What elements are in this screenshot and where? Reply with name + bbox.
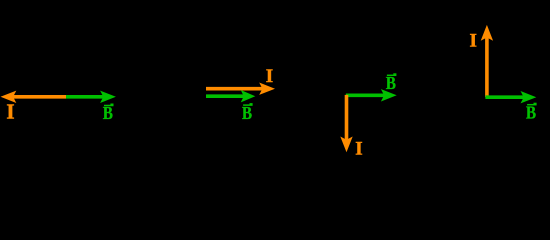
svg-text:I: I [355, 139, 362, 160]
svg-text:I: I [469, 30, 476, 51]
svg-text:I: I [266, 66, 273, 87]
svg-text:I: I [6, 100, 14, 124]
